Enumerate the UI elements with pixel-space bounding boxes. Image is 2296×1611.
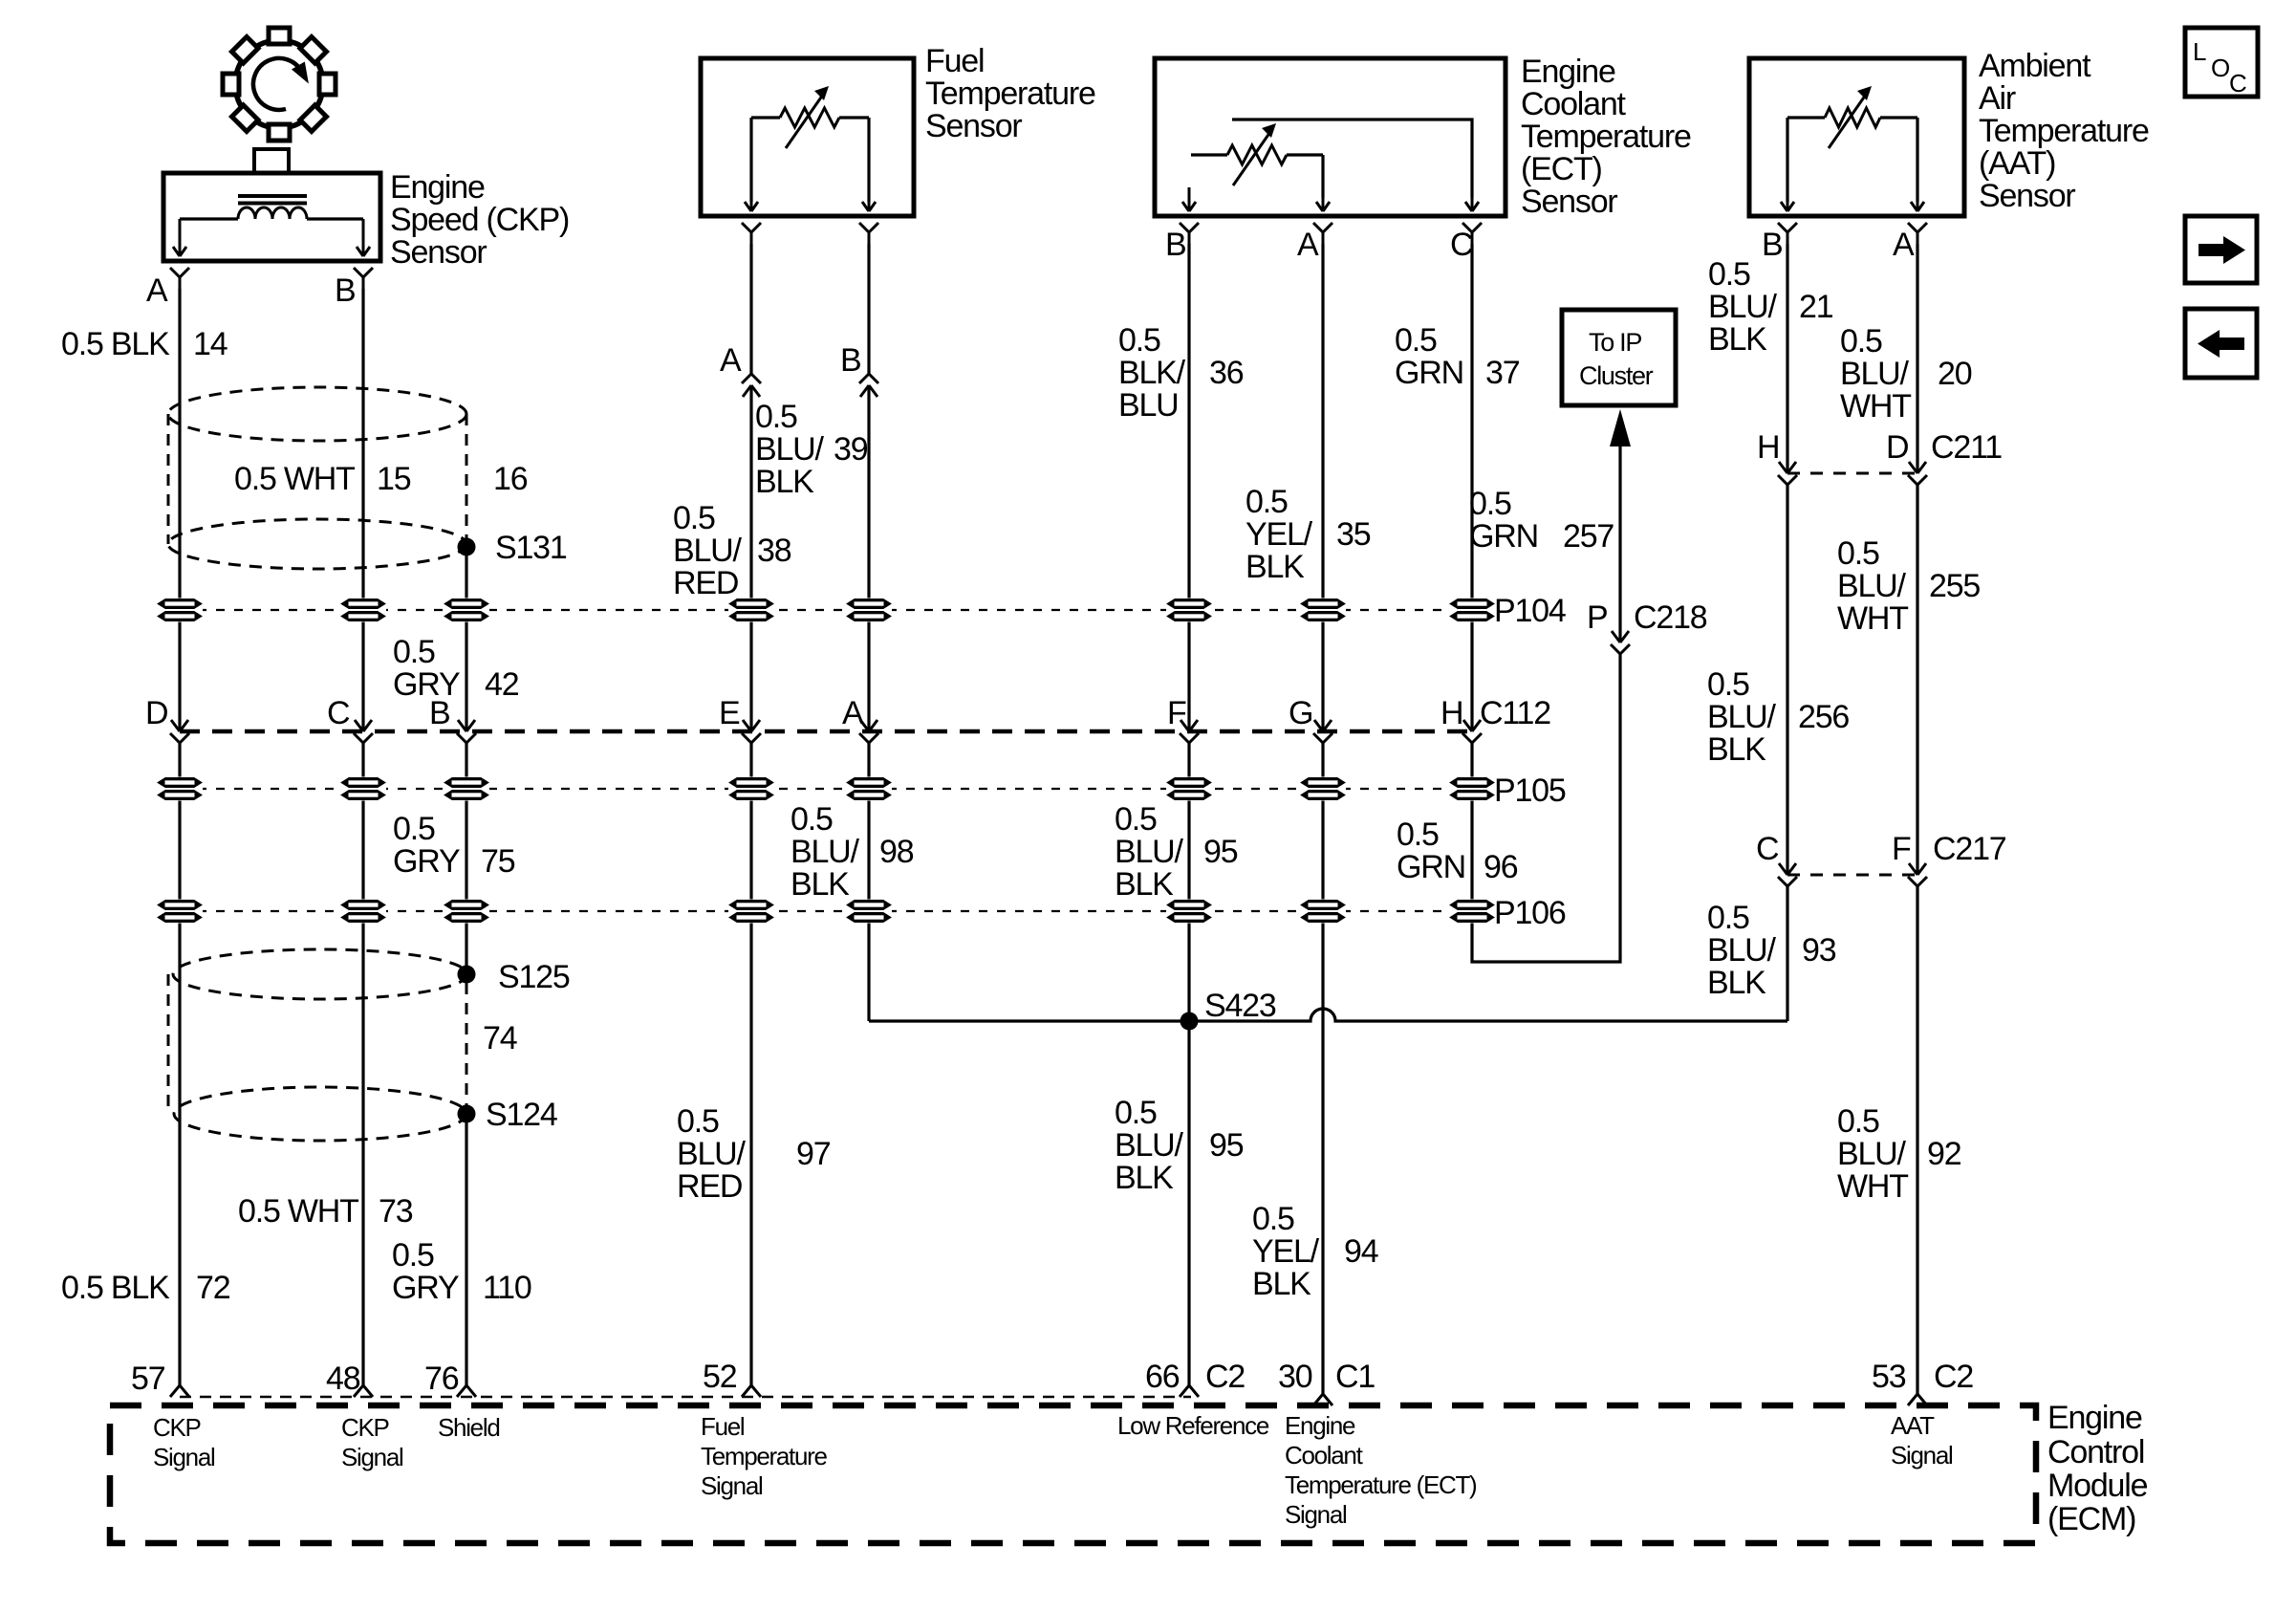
grommet P106 x488	[444, 900, 489, 924]
svg-text:48: 48	[326, 1361, 360, 1397]
svg-text:256: 256	[1798, 699, 1849, 735]
svg-text:Control: Control	[2047, 1434, 2144, 1470]
svg-text:WHT: WHT	[1840, 388, 1911, 425]
svg-text:A: A	[1893, 227, 1915, 263]
svg-text:B: B	[1762, 227, 1782, 263]
ECM pin 30	[1313, 1394, 1332, 1405]
svg-text:WHT: WHT	[1837, 1168, 1908, 1205]
svg-text:GRY: GRY	[392, 1270, 459, 1306]
right arrow	[2199, 236, 2245, 264]
ECM pin 66	[1180, 1385, 1199, 1397]
svg-text:C2: C2	[1934, 1359, 1973, 1395]
Fuel Temperature Sensor box	[701, 58, 914, 216]
svg-text:H: H	[1440, 695, 1462, 731]
svg-text:110: 110	[483, 1270, 531, 1306]
svg-text:C211: C211	[1931, 429, 2002, 466]
grommet P106 x380	[340, 900, 386, 924]
svg-text:BLU/: BLU/	[791, 834, 860, 870]
wire fuel A lower	[749, 743, 752, 1385]
svg-text:94: 94	[1344, 1233, 1378, 1270]
connector C112 pin G	[1313, 720, 1332, 743]
svg-text:S125: S125	[498, 959, 570, 995]
wire CKP A lower	[178, 743, 181, 1385]
grommet P104 x1540	[1449, 599, 1495, 622]
connector C112 pin D	[170, 720, 189, 743]
svg-text:42: 42	[485, 666, 519, 703]
connector C112 pin B	[457, 720, 476, 743]
wire ECT A upper	[1321, 244, 1324, 731]
Ambient Air Temperature Sensor box	[1749, 58, 1964, 216]
wire ECT B lower	[1187, 743, 1190, 1385]
CKP coil lead right	[307, 217, 363, 220]
AAT pin A fork	[1908, 223, 1927, 244]
svg-text:97: 97	[796, 1136, 831, 1172]
svg-text:WHT: WHT	[1837, 600, 1908, 637]
svg-text:0.5: 0.5	[1252, 1201, 1294, 1237]
svg-text:BLK: BLK	[1708, 321, 1767, 358]
svg-text:D: D	[1886, 429, 1908, 466]
wire fuel B lower	[867, 743, 870, 1021]
svg-text:A: A	[842, 695, 864, 731]
svg-text:BLK: BLK	[755, 464, 814, 500]
svg-text:0.5: 0.5	[1837, 1103, 1879, 1140]
connector C112 pin E	[742, 720, 761, 743]
fuel connector pin A	[742, 374, 761, 397]
svg-text:16: 16	[493, 461, 528, 497]
svg-text:Signal: Signal	[341, 1443, 403, 1471]
svg-text:Engine: Engine	[1285, 1411, 1355, 1440]
connector C217 pin F	[1908, 863, 1927, 886]
svg-text:D: D	[145, 695, 167, 731]
splice S124	[458, 1105, 476, 1123]
svg-text:20: 20	[1938, 356, 1972, 392]
svg-text:Temperature: Temperature	[701, 1442, 827, 1470]
svg-text:P106: P106	[1494, 895, 1566, 931]
svg-text:Temperature: Temperature	[1979, 113, 2149, 149]
grommet P104 x1384	[1300, 599, 1346, 622]
fuel pin B fork	[859, 223, 878, 244]
svg-text:H: H	[1757, 429, 1779, 466]
grommet P106 x786	[728, 900, 774, 924]
svg-text:BLU/: BLU/	[673, 533, 743, 569]
grommet P104 x786	[728, 599, 774, 622]
svg-text:RED: RED	[673, 565, 738, 601]
svg-text:Fuel: Fuel	[701, 1412, 745, 1441]
wire CKP B lower	[361, 743, 364, 1385]
svg-text:GRY: GRY	[393, 843, 460, 880]
svg-text:GRN: GRN	[1397, 849, 1465, 885]
shield drain dashed between S125 S124	[466, 983, 468, 1105]
wire CKP A upper	[178, 289, 181, 731]
svg-text:257: 257	[1563, 518, 1614, 555]
wire shield mid	[465, 743, 467, 966]
svg-text:Engine: Engine	[390, 169, 485, 206]
AAT interior arrow A	[1911, 198, 1924, 211]
svg-text:30: 30	[1278, 1359, 1312, 1395]
wire fuel B upper	[867, 244, 870, 374]
svg-text:BLU/: BLU/	[755, 431, 825, 468]
grommet P106 x1540	[1449, 900, 1495, 924]
AAT interior wire A	[1916, 118, 1918, 202]
svg-text:BLK: BLK	[1115, 866, 1174, 903]
AAT thermistor lead left	[1787, 116, 1825, 119]
wire shield lower	[465, 1122, 467, 1385]
svg-text:Coolant: Coolant	[1285, 1441, 1364, 1469]
svg-text:F: F	[1167, 695, 1186, 731]
ECT pin B fork	[1180, 223, 1199, 244]
svg-text:255: 255	[1929, 568, 1980, 604]
connector C218 crossing	[1611, 631, 1630, 654]
svg-text:95: 95	[1203, 834, 1238, 870]
svg-text:E: E	[719, 695, 740, 731]
svg-text:0.5: 0.5	[1245, 484, 1288, 520]
ECM pin 76	[457, 1385, 476, 1397]
connector C112 pin C	[354, 720, 373, 743]
Engine Coolant Temperature Sensor box	[1155, 58, 1505, 216]
svg-text:BLU: BLU	[1118, 387, 1179, 424]
svg-text:15: 15	[377, 461, 411, 497]
svg-text:BLK: BLK	[1115, 1160, 1174, 1196]
svg-text:Module: Module	[2047, 1468, 2148, 1504]
svg-text:(ECM): (ECM)	[2047, 1501, 2135, 1537]
svg-text:93: 93	[1802, 932, 1836, 969]
svg-text:0.5: 0.5	[1469, 486, 1511, 522]
shield lower cylinder ellipse S124	[174, 1087, 466, 1141]
connector row P106 dashed line	[180, 910, 1484, 912]
CKP pin B fork	[354, 268, 373, 289]
svg-text:C217: C217	[1933, 831, 2006, 867]
svg-text:B: B	[1165, 227, 1185, 263]
svg-text:Signal: Signal	[701, 1471, 763, 1500]
connector row C211 dashed line	[1787, 472, 1917, 475]
svg-text:21: 21	[1799, 289, 1833, 325]
svg-text:53: 53	[1872, 1359, 1906, 1395]
fuel connector pin B	[859, 374, 878, 397]
arrow into IP cluster	[1610, 409, 1631, 446]
svg-text:GRN: GRN	[1395, 355, 1463, 391]
grommet P105 x380	[340, 777, 386, 801]
svg-text:Sensor: Sensor	[925, 108, 1022, 144]
connector row P105 dashed line	[180, 788, 1484, 790]
svg-text:Sensor: Sensor	[1979, 178, 2075, 214]
fuel temp thermistor	[780, 86, 839, 148]
svg-text:Engine: Engine	[1521, 54, 1615, 90]
ECT thermistor	[1227, 123, 1287, 185]
svg-text:A: A	[1297, 227, 1319, 263]
grommet P106 x1384	[1300, 900, 1346, 924]
fuel interior arrow B	[862, 198, 876, 211]
wire ECT C lower to corner	[1472, 653, 1620, 962]
CKP interior arrow pin B	[357, 219, 370, 256]
svg-text:BLK: BLK	[1245, 549, 1305, 585]
svg-text:0.5: 0.5	[673, 500, 715, 536]
svg-text:0.5: 0.5	[1115, 1095, 1157, 1131]
grommet P105 x1384	[1300, 777, 1346, 801]
svg-text:Coolant: Coolant	[1521, 86, 1627, 122]
svg-text:Signal: Signal	[153, 1443, 215, 1471]
svg-text:B: B	[840, 342, 860, 379]
svg-text:A: A	[720, 342, 742, 379]
svg-text:Fuel: Fuel	[925, 43, 984, 79]
svg-text:GRN: GRN	[1469, 518, 1538, 555]
svg-text:BLK: BLK	[1252, 1266, 1311, 1302]
svg-text:B: B	[335, 272, 355, 309]
AAT thermistor	[1825, 86, 1880, 148]
svg-text:BLU/: BLU/	[1708, 289, 1778, 325]
svg-text:P: P	[1587, 599, 1607, 636]
ECM pin 57	[170, 1385, 189, 1397]
svg-text:CKP: CKP	[341, 1413, 389, 1442]
svg-text:(ECT): (ECT)	[1521, 151, 1602, 187]
grommet P106 x909	[846, 900, 892, 924]
svg-text:P105: P105	[1494, 773, 1566, 809]
svg-text:Ambient: Ambient	[1979, 48, 2091, 84]
svg-text:0.5: 0.5	[677, 1103, 719, 1140]
svg-text:0.5: 0.5	[1708, 256, 1750, 293]
svg-text:0.5: 0.5	[1118, 322, 1160, 359]
svg-text:0.5: 0.5	[791, 801, 833, 838]
svg-text:GRY: GRY	[393, 666, 460, 703]
svg-text:0.5 BLK: 0.5 BLK	[61, 326, 170, 362]
svg-text:0.5: 0.5	[392, 1237, 434, 1274]
svg-text:C: C	[1450, 227, 1473, 263]
wire ECT B upper	[1187, 244, 1190, 731]
svg-text:96: 96	[1484, 849, 1518, 885]
svg-text:S124: S124	[486, 1097, 557, 1133]
svg-text:0.5: 0.5	[1840, 323, 1882, 359]
grommet P104 x488	[444, 599, 489, 622]
ECM pin row thin dashed line	[180, 1396, 1191, 1398]
wire ECT A lower	[1321, 743, 1324, 1394]
shield cylinder top ellipse	[168, 387, 466, 441]
svg-text:0.5: 0.5	[1115, 801, 1157, 838]
ECT interior arrow B	[1182, 187, 1196, 211]
svg-text:C: C	[2229, 69, 2246, 98]
ECM pin 52	[742, 1385, 761, 1397]
svg-text:Engine: Engine	[2047, 1400, 2142, 1436]
grommet P105 x909	[846, 777, 892, 801]
wire AAT B mid	[1786, 485, 1788, 875]
grommet P105 x786	[728, 777, 774, 801]
fuel interior wire A	[749, 118, 752, 202]
shield drain dashed upper	[466, 414, 468, 541]
grommet P104 x188	[157, 599, 203, 622]
connector C112 pin A	[859, 720, 878, 743]
svg-text:38: 38	[757, 533, 791, 569]
CKP coil lead left	[180, 217, 238, 220]
svg-text:C: C	[1756, 831, 1779, 867]
fuel interior arrow A	[745, 198, 758, 211]
connector C211 pin D	[1908, 462, 1927, 485]
svg-text:BLU/: BLU/	[1837, 568, 1907, 604]
svg-text:52: 52	[703, 1359, 737, 1395]
svg-text:72: 72	[196, 1270, 230, 1306]
svg-text:76: 76	[424, 1361, 459, 1397]
svg-text:0.5 BLK: 0.5 BLK	[61, 1270, 170, 1306]
svg-text:36: 36	[1209, 355, 1244, 391]
svg-text:Sensor: Sensor	[390, 234, 487, 271]
grommet P104 x380	[340, 599, 386, 622]
fuel interior wire B	[867, 118, 870, 202]
CKP sensor box	[163, 173, 380, 261]
grommet P105 x1244	[1166, 777, 1212, 801]
wire AAT A lower	[1916, 886, 1918, 1394]
svg-text:YEL/: YEL/	[1245, 516, 1313, 553]
svg-text:73: 73	[379, 1193, 413, 1230]
svg-text:BLU/: BLU/	[1115, 834, 1184, 870]
svg-text:57: 57	[131, 1361, 165, 1397]
grommet P105 x188	[157, 777, 203, 801]
wire low-reference bus S423 horizontal with hop	[869, 1009, 1787, 1021]
grommet P104 x1244	[1166, 599, 1212, 622]
svg-text:98: 98	[879, 834, 914, 870]
fuel thermistor lead right	[839, 116, 869, 119]
svg-text:0.5: 0.5	[1397, 816, 1439, 853]
ECM pin 48	[354, 1385, 373, 1397]
wire fuel A mid	[749, 385, 752, 731]
grommet P106 x188	[157, 900, 203, 924]
svg-text:Temperature: Temperature	[925, 76, 1095, 112]
wire fuel A upper	[749, 244, 752, 374]
svg-text:BLU/: BLU/	[1707, 932, 1777, 969]
svg-text:0.5: 0.5	[393, 811, 435, 847]
svg-text:BLU/: BLU/	[677, 1136, 747, 1172]
wire fuel B mid	[867, 385, 870, 731]
shield cylinder side left upper	[167, 414, 170, 544]
fuel pin A fork	[742, 223, 761, 244]
svg-text:66: 66	[1145, 1359, 1180, 1395]
wire AAT B lower	[1786, 886, 1788, 1021]
grommet P105 x488	[444, 777, 489, 801]
svg-text:0.5: 0.5	[393, 634, 435, 670]
svg-text:C2: C2	[1205, 1359, 1245, 1395]
AAT interior wire B	[1786, 118, 1788, 202]
svg-text:Low Reference: Low Reference	[1117, 1411, 1269, 1440]
ECT top line to pin C	[1232, 120, 1472, 198]
svg-text:Sensor: Sensor	[1521, 184, 1617, 220]
connector C112 pin F	[1180, 720, 1199, 743]
grommet P105 x1540	[1449, 777, 1495, 801]
svg-text:CKP: CKP	[153, 1413, 201, 1442]
svg-text:BLU/: BLU/	[1837, 1136, 1907, 1172]
svg-text:C: C	[327, 695, 350, 731]
AAT pin B fork	[1778, 223, 1797, 244]
svg-text:92: 92	[1927, 1136, 1961, 1172]
svg-text:0.5: 0.5	[1837, 535, 1879, 572]
connector C211 pin H	[1778, 462, 1797, 485]
svg-text:0.5: 0.5	[755, 399, 797, 435]
svg-text:0.5: 0.5	[1395, 322, 1437, 359]
wire AAT A mid	[1916, 485, 1918, 875]
svg-text:P104: P104	[1494, 593, 1566, 629]
AAT interior arrow B	[1781, 198, 1794, 211]
ECM pin 53	[1908, 1394, 1927, 1405]
connector C112 pin H	[1462, 720, 1482, 743]
svg-text:RED: RED	[677, 1168, 742, 1205]
splice S125	[458, 966, 476, 984]
splice S423	[1180, 1012, 1199, 1031]
ECT pin A fork	[1313, 223, 1332, 244]
svg-text:Shield: Shield	[438, 1413, 499, 1442]
svg-text:G: G	[1289, 695, 1312, 731]
svg-text:AAT: AAT	[1891, 1411, 1935, 1440]
shield lower cylinder side left	[167, 974, 170, 1114]
wire ECT C upper	[1470, 244, 1473, 731]
ECT interior wire A	[1321, 155, 1324, 198]
splice S131	[458, 538, 476, 556]
right arrow box	[2185, 216, 2257, 283]
connector row C112 dashed line	[180, 729, 1472, 734]
svg-text:0.5 WHT: 0.5 WHT	[238, 1193, 358, 1230]
svg-text:BLK: BLK	[791, 866, 850, 903]
svg-text:YEL/: YEL/	[1252, 1233, 1320, 1270]
svg-text:C218: C218	[1634, 599, 1707, 636]
shield lower cylinder ellipse S125	[173, 949, 467, 999]
svg-text:Speed (CKP): Speed (CKP)	[390, 202, 569, 238]
svg-text:74: 74	[483, 1020, 517, 1056]
svg-text:A: A	[146, 272, 168, 309]
CKP sensor mounting tab	[254, 149, 289, 173]
svg-text:O: O	[2211, 54, 2229, 82]
LOC legend box	[2185, 28, 2258, 97]
svg-text:BLU/: BLU/	[1707, 699, 1777, 735]
svg-text:L: L	[2193, 37, 2206, 66]
svg-text:BLU/: BLU/	[1840, 356, 1910, 392]
svg-text:BLK/: BLK/	[1118, 355, 1186, 391]
svg-text:0.5: 0.5	[1707, 666, 1749, 703]
CKP reluctor gear icon	[223, 28, 336, 141]
svg-text:39: 39	[834, 431, 868, 468]
svg-text:C112: C112	[1480, 695, 1550, 731]
svg-text:Temperature: Temperature	[1521, 119, 1691, 155]
ECT interior arrow A	[1316, 196, 1330, 211]
svg-text:BLU/: BLU/	[1115, 1127, 1184, 1164]
CKP inductor coil	[238, 207, 307, 219]
grommet P106 x1244	[1166, 900, 1212, 924]
svg-text:Signal: Signal	[1285, 1500, 1347, 1529]
svg-text:37: 37	[1485, 355, 1520, 391]
fuel thermistor lead left	[751, 116, 780, 119]
ECT thermistor lead right	[1287, 153, 1323, 156]
CKP interior arrow pin A	[173, 219, 186, 256]
svg-text:To IP: To IP	[1589, 328, 1641, 357]
svg-text:14: 14	[193, 326, 227, 362]
wire AAT B upper	[1786, 244, 1788, 473]
ECM box dashed border	[110, 1405, 2036, 1543]
left arrow box	[2185, 309, 2257, 378]
svg-text:S131: S131	[495, 530, 567, 566]
left arrow	[2198, 330, 2244, 358]
svg-text:95: 95	[1209, 1127, 1244, 1164]
svg-text:C1: C1	[1335, 1359, 1375, 1395]
AAT thermistor lead right	[1880, 116, 1917, 119]
svg-text:BLK: BLK	[1707, 731, 1766, 768]
wire AAT A upper	[1916, 244, 1918, 473]
svg-text:0.5 WHT: 0.5 WHT	[234, 461, 355, 497]
svg-text:Signal: Signal	[1891, 1441, 1953, 1469]
connector row C217 dashed line	[1787, 874, 1917, 877]
svg-text:S423: S423	[1204, 988, 1276, 1024]
wire GRN to IP cluster upper	[1618, 446, 1621, 642]
ECT pin C fork	[1462, 223, 1482, 244]
svg-text:(AAT): (AAT)	[1979, 145, 2055, 182]
svg-text:F: F	[1892, 831, 1911, 867]
CKP pin A fork	[170, 268, 189, 289]
svg-text:BLK: BLK	[1707, 965, 1766, 1001]
grommet P104 x909	[846, 599, 892, 622]
svg-text:0.5: 0.5	[1707, 900, 1749, 936]
svg-text:35: 35	[1336, 516, 1371, 553]
